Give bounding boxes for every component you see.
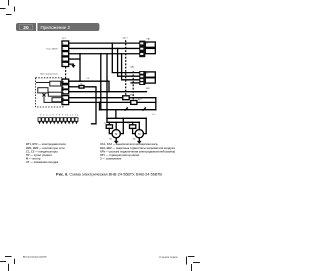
svg-text:ВК1, ВК2 — защитные термостаты: ВК1, ВК2 — защитные термостаты нагревате… [100, 146, 175, 150]
svg-text:2: 2 [63, 49, 64, 51]
svg-text:ВТ1, ВТ2 — электродвигатели: ВТ1, ВТ2 — электродвигатели [26, 142, 66, 146]
svg-text:Приложение 2: Приложение 2 [41, 25, 71, 30]
svg-text:С1, С2 — конденсаторы: С1, С2 — конденсаторы [26, 149, 59, 153]
svg-text:ХА1.1: ХА1.1 [122, 36, 129, 39]
svg-text:ХА1, ХА2 — выключатели автомат: ХА1, ХА2 — выключатели автоматики нагр. [100, 142, 158, 146]
svg-text:5: 5 [63, 65, 64, 67]
svg-text:ХРп — разъем подключения элект: ХРп — разъем подключения электродвигател… [100, 149, 175, 153]
svg-text:ПУ — пульт управл.: ПУ — пульт управл. [26, 153, 53, 157]
svg-text:17.03.2010 13:38:50: 17.03.2010 13:38:50 [159, 257, 178, 259]
svg-text:3: 3 [63, 54, 64, 56]
svg-text:20: 20 [23, 25, 29, 31]
svg-text:К1: К1 [146, 43, 148, 45]
svg-text:2: 2 [63, 87, 64, 89]
svg-text:ХРт — терморегулятор капил.: ХРт — терморегулятор капил. [100, 153, 140, 157]
svg-text:1: 1 [63, 43, 64, 45]
svg-text:М — мотор: М — мотор [26, 156, 41, 160]
svg-text:2 3 4 5 6 7 8 9 10 11 12: 2 3 4 5 6 7 8 9 10 11 12 [40, 114, 79, 116]
svg-text:З — заземление: З — заземление [100, 156, 122, 160]
svg-text:Пульт управления: Пульт управления [40, 73, 57, 75]
svg-text:М: М [115, 132, 117, 136]
svg-text:ХРп: ХРп [152, 114, 156, 116]
svg-text:4: 4 [63, 98, 64, 100]
svg-text:4: 4 [63, 59, 64, 61]
svg-text:«Сеть 380 В»: «Сеть 380 В» [46, 48, 58, 50]
svg-text:5: 5 [63, 103, 64, 105]
svg-text:КМ1, КМ2 — контакторы сети: КМ1, КМ2 — контакторы сети [26, 146, 65, 150]
svg-text:М: М [138, 132, 140, 136]
svg-text:К2: К2 [146, 73, 148, 75]
svg-text:3: 3 [63, 92, 64, 94]
svg-text:ХТ — клеммная колодка: ХТ — клеммная колодка [26, 160, 59, 164]
svg-text:1: 1 [63, 81, 64, 83]
svg-text:Вентустановки.indd 20: Вентустановки.indd 20 [23, 257, 47, 259]
svg-text:Рис. 6. Схема электрическая ВН: Рис. 6. Схема электрическая ВНВ-24-56ВТУ… [56, 173, 162, 177]
